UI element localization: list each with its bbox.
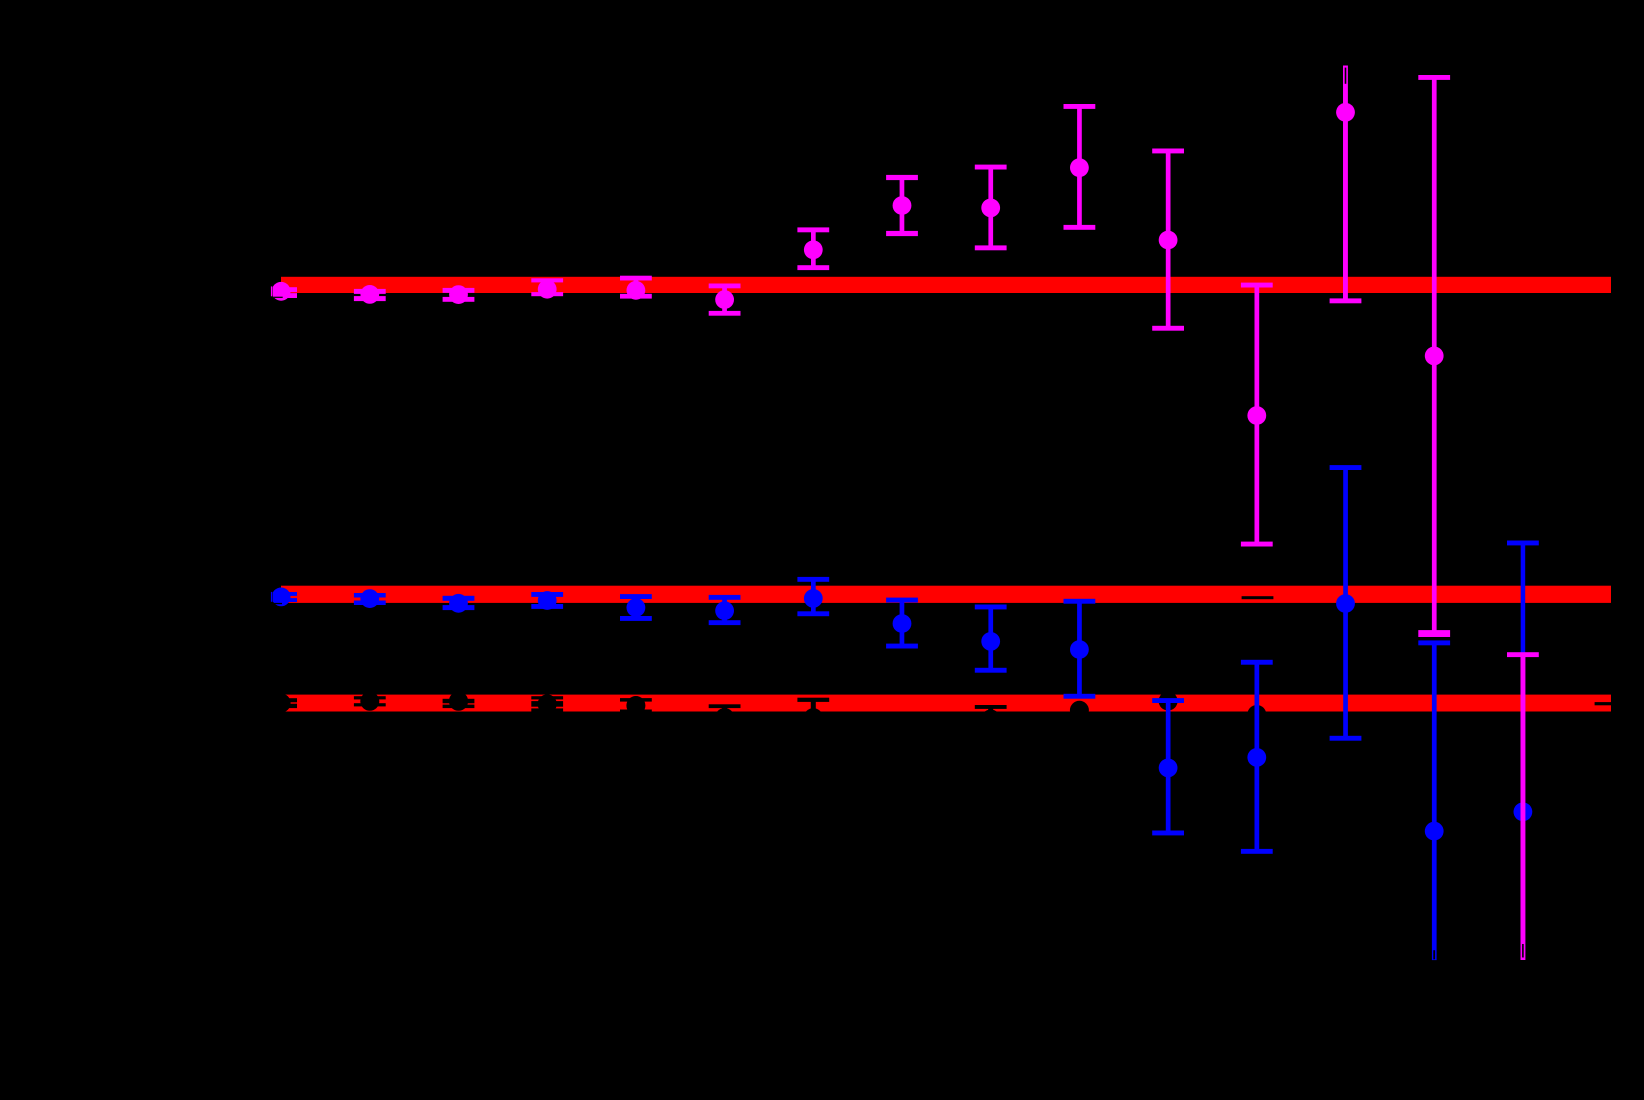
black data point 6	[709, 704, 741, 727]
blue data point 4	[531, 591, 563, 610]
magenta data point 15 (marker below frame, bar clipped)	[1507, 652, 1539, 960]
bottom axis tick crossing magenta point 15 bar	[1522, 944, 1524, 958]
blue data point 13	[1330, 465, 1362, 741]
blue data point 9	[975, 605, 1007, 673]
black data point 2	[354, 692, 386, 711]
top axis tick crossing magenta point 13 bar	[1345, 68, 1347, 84]
magenta data point 8	[886, 175, 918, 236]
magenta data point 10	[1064, 104, 1096, 230]
magenta data point 5	[620, 276, 652, 300]
magenta data point 12	[1241, 283, 1273, 547]
magenta data point 1	[271, 281, 297, 302]
magenta data point 7	[797, 227, 829, 270]
red reference line bottom	[281, 695, 1611, 712]
blue data point 2	[354, 589, 386, 608]
magenta data point 14	[1418, 75, 1450, 637]
blue data point 8	[886, 598, 918, 649]
magenta data point 11	[1152, 149, 1184, 331]
magenta data point 6	[709, 284, 741, 316]
magenta data point 4	[531, 278, 563, 298]
magenta data point 9	[975, 165, 1007, 251]
blue data point 5	[620, 594, 652, 621]
magenta data point 2	[354, 285, 386, 304]
magenta data point 3	[443, 285, 475, 304]
blue data point 10	[1064, 599, 1096, 699]
blue data point 12	[1241, 660, 1273, 854]
blue data point 14 (clipped at frame bottom)	[1418, 640, 1450, 960]
black data point 1	[272, 694, 297, 713]
blue data point 1	[271, 586, 297, 607]
left axis tick at y=297.3	[273, 297, 283, 298]
blue data point 6	[709, 595, 741, 625]
black data point 12 top cap on middle red line	[1242, 596, 1274, 599]
black data point 5	[620, 696, 652, 715]
blue data point 3	[443, 594, 475, 613]
black data point 10	[1070, 701, 1089, 720]
bottom axis tick crossing blue point 14 bar	[1433, 950, 1435, 959]
blue data point 15	[1507, 541, 1539, 956]
black data point 12	[1247, 705, 1266, 724]
blue data point 11	[1152, 698, 1184, 835]
black data point 11	[1159, 692, 1178, 711]
black data point 7	[797, 698, 829, 727]
magenta data point 13 (reaches frame top)	[1330, 66, 1362, 304]
red reference line middle	[281, 586, 1611, 603]
black data point 9	[975, 705, 1007, 729]
black data point 3	[443, 692, 475, 711]
blue data point 7	[797, 577, 829, 616]
right axis tick on bottom red line	[1595, 702, 1611, 705]
black data point 4	[531, 694, 563, 713]
left axis tick at y=603.5	[272, 603, 282, 604]
red reference line top	[281, 277, 1611, 293]
